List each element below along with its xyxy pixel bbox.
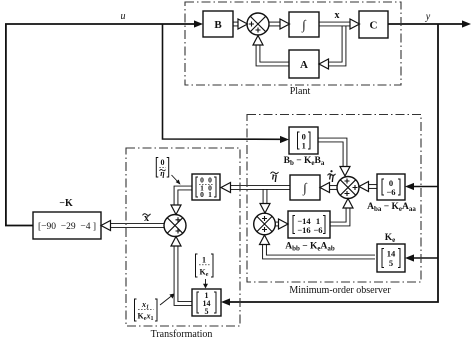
vector wire observer sum to observer integrator xyxy=(329,185,337,190)
vector wire plant sum to integrator xyxy=(269,22,280,27)
block Bb-KeBa xyxy=(289,127,318,154)
annotation label [1;Ke] xyxy=(196,254,214,289)
arrow plant sum to integrator xyxy=(280,19,290,29)
arrow xtilde into -K xyxy=(101,221,111,231)
block observer integrator xyxy=(290,175,320,200)
label eta tilde dot xyxy=(328,170,336,182)
arrow y into Ke xyxy=(405,254,414,261)
arrow x branch into A xyxy=(319,59,329,69)
vector wire A out to plant sum bottom xyxy=(258,44,291,64)
vector wire eta branch down to lower sum xyxy=(263,185,268,204)
arrow y feedback into T lower xyxy=(221,298,230,305)
block A xyxy=(289,50,319,78)
block Ke xyxy=(377,244,405,272)
annotation label [0;eta] xyxy=(156,158,180,185)
svg-text:1: 1 xyxy=(208,190,212,199)
arrow Abb-KeAab into observer sum bottom xyxy=(343,199,353,209)
block Abb-KeAab xyxy=(288,211,330,238)
block T upper (0 0 / 1 0 / 0 1) xyxy=(192,174,220,200)
arrow eta into T upper block xyxy=(221,183,231,193)
svg-text:0: 0 xyxy=(161,158,165,167)
vector wire x branch down to A xyxy=(327,22,344,64)
block Aba-KeAaa xyxy=(377,174,405,200)
svg-text:1: 1 xyxy=(202,256,206,265)
dashed box Minimum-order observer xyxy=(247,115,421,283)
svg-text:5: 5 xyxy=(389,258,393,268)
wire u feedback from -K up left side and along top into B xyxy=(6,24,196,226)
dashed box Transformation xyxy=(126,148,240,326)
arrow B to plant sum xyxy=(238,19,248,29)
arrow integrator to C xyxy=(350,19,360,29)
dashed box Plant xyxy=(185,2,401,85)
wire y into Ke block xyxy=(413,257,438,259)
vector wire lower T block out up to transformation sum bottom xyxy=(176,245,194,304)
annotation label [x1;Kex1] xyxy=(135,294,175,323)
vector wire integrator to C xyxy=(319,22,350,27)
svg-text:Transformation: Transformation xyxy=(151,329,213,340)
svg-text:η: η xyxy=(329,172,335,183)
svg-text:x: x xyxy=(335,10,340,21)
summing junction transformation xyxy=(164,215,186,237)
summing junction observer main xyxy=(337,177,359,199)
wire y into Aba-KeAaa block xyxy=(413,186,438,188)
label x tilde xyxy=(143,213,151,224)
svg-text:0: 0 xyxy=(200,190,204,199)
svg-text:[−90 −29 −4 ]: [−90 −29 −4 ] xyxy=(38,222,96,232)
summing junction observer lower xyxy=(254,213,276,235)
arrow T upper out into transformation sum top xyxy=(171,205,181,215)
block plant integrator xyxy=(289,12,319,37)
vector wire Ke out to lower sum bottom xyxy=(265,244,378,257)
block C xyxy=(359,11,388,38)
svg-text:14: 14 xyxy=(387,249,396,259)
arrow u branch into Bb-KeBa xyxy=(280,136,289,143)
arrow Bb-KeBa out into observer sum top xyxy=(340,167,350,177)
vector wire lower sum to Abb-KeAab block xyxy=(276,222,280,227)
vector wire T-matrix block out down to transformation sum top xyxy=(176,188,194,205)
svg-text:Bb − KeBa: Bb − KeBa xyxy=(284,156,325,167)
svg-text:Plant: Plant xyxy=(290,86,311,97)
block T lower (1 / 14 / 5) xyxy=(192,289,221,316)
wire y feedback down right side and along bottom xyxy=(229,24,438,302)
svg-text:u: u xyxy=(121,11,126,22)
arrow Ke out into lower sum bottom xyxy=(260,235,270,245)
vector wire Aba-KeAaa out to observer sum right xyxy=(368,184,379,189)
svg-text:−16: −16 xyxy=(297,225,310,235)
arrow u into B xyxy=(194,20,203,27)
svg-text:−K: −K xyxy=(59,198,73,209)
vector wire Bb-KeBa out to observer sum top xyxy=(316,140,345,167)
vector wire B to plant sum xyxy=(233,22,238,27)
svg-text:5: 5 xyxy=(205,307,209,316)
arrow observer sum into integrator xyxy=(320,183,330,193)
svg-text:A: A xyxy=(300,59,308,71)
svg-text:C: C xyxy=(370,20,378,32)
arrow y into Aba-KeAaa xyxy=(405,183,414,190)
svg-text:1: 1 xyxy=(302,141,306,151)
vector wire Abb-KeAab out up to observer sum bottom xyxy=(328,207,348,224)
wire u branch down to observer input xyxy=(163,24,283,139)
arrow eta branch into lower sum top xyxy=(260,204,270,214)
arrow Aba-KeAaa into observer sum right xyxy=(359,182,369,192)
svg-text:B: B xyxy=(214,19,222,31)
block -K xyxy=(33,212,101,239)
wire y output from C xyxy=(388,23,463,25)
arrow T lower out into transformation sum bottom xyxy=(171,237,181,247)
vector wire observer integrator out to transformation block xyxy=(228,185,293,190)
svg-text:−6: −6 xyxy=(313,225,322,235)
svg-text:Minimum-order observer: Minimum-order observer xyxy=(289,285,391,296)
block B xyxy=(203,11,233,37)
arrow A out into plant sum bottom xyxy=(253,36,263,46)
arrow y output xyxy=(462,20,471,27)
vector wire xtilde from transformation sum to -K xyxy=(110,223,164,228)
svg-text:−6: −6 xyxy=(386,187,395,197)
svg-text:y: y xyxy=(425,12,431,23)
label eta tilde xyxy=(271,172,279,183)
summing junction plant xyxy=(247,13,269,35)
arrow lower sum into Abb-KeAab xyxy=(279,219,289,229)
